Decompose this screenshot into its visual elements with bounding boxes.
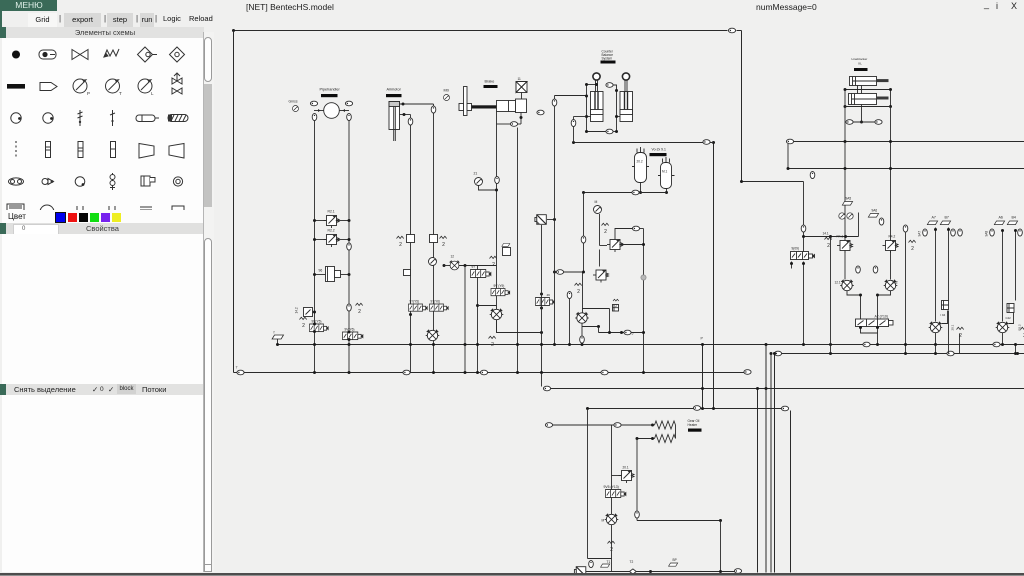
flow valve 9V8a on x433: [426, 330, 440, 341]
svg-text:14.2: 14.2: [295, 307, 299, 313]
label bar Airmotor: [386, 94, 402, 97]
svg-text:P: P: [701, 337, 704, 341]
wire vertical x713: [713, 143, 715, 409]
check diamond on bottom rail: [630, 569, 637, 574]
wire x554 top branch to crown rail: [555, 95, 587, 97]
wire C2 left leg x496: [496, 112, 498, 333]
filter F2 side box: [335, 271, 341, 278]
port on x636: [635, 511, 640, 518]
svg-text:A6: A6: [999, 216, 1003, 220]
wire leg x830: [830, 237, 832, 354]
wire x598 drop: [598, 327, 600, 333]
cylinder C2 (Brake) body: [497, 101, 516, 112]
svg-text:49: 49: [547, 293, 551, 297]
wire crown left rail mid stub: [587, 116, 591, 118]
svg-text:A2 (Y10): A2 (Y10): [875, 315, 888, 319]
junction at 741,181: [740, 180, 743, 183]
svg-text:20.1: 20.1: [623, 466, 629, 470]
svg-text:P: P: [87, 91, 90, 96]
cylinder C4 eye: [622, 73, 629, 80]
port on y332: [624, 330, 631, 335]
svg-text:11: 11: [518, 77, 522, 81]
filter box B1: [516, 82, 527, 93]
wire regulator out y244 to x643: [620, 244, 644, 246]
glyph box small on x410: [404, 270, 411, 276]
port below 9V8: [580, 336, 585, 343]
wire right rail bottom stub: [614, 131, 617, 133]
wire leg x477 below valve: [477, 278, 479, 373]
icon: bowtie valve: [72, 50, 88, 60]
label bar Brake: [484, 85, 498, 88]
port cap y424 left: [545, 423, 552, 428]
svg-text:R4.2: R4.2: [889, 235, 896, 239]
svg-text:Vo-2x 9.1: Vo-2x 9.1: [652, 148, 666, 152]
wire drop x787 from y141 port: [787, 144, 789, 169]
wire leg x517: [517, 128, 519, 373]
cylinder C4 rod: [625, 80, 627, 92]
wire R2.1 right stub: [337, 220, 350, 222]
cylinder C1 (Airmotor) body: [389, 102, 400, 130]
port P0 on top edge: [728, 28, 735, 33]
cylinder C6 body: [849, 94, 877, 105]
icon: tall rect A: [46, 142, 51, 158]
port 9A6: [879, 218, 884, 225]
port on R4.2 drop: [873, 266, 878, 273]
svg-text:T: T: [119, 91, 122, 96]
port cap rail y141: [786, 139, 793, 144]
svg-text:9?(Y6): 9?(Y6): [431, 300, 441, 304]
wire link to x496 top: [518, 123, 522, 125]
junction leg L on rail y344: [313, 343, 316, 346]
svg-text:R2.2: R2.2: [328, 229, 335, 233]
icon row6 partial b: [40, 205, 54, 219]
wire left feed to oval x573: [574, 116, 587, 118]
svg-text:9V5 (Y13): 9V5 (Y13): [604, 485, 619, 489]
flow valve on x496: [490, 309, 504, 320]
cylinder C1 rod: [394, 107, 396, 142]
cylinder C4 body: [620, 92, 633, 122]
svg-text:20.1: 20.1: [951, 324, 955, 330]
icon: pointer flag: [40, 83, 57, 91]
port on y424: [614, 423, 621, 428]
wire filter right stub: [341, 274, 350, 276]
meter box IM: [942, 301, 949, 310]
junction x476 rail y344: [476, 343, 479, 346]
port on branch y142: [703, 140, 710, 145]
port right of U1: [345, 101, 352, 106]
port on rail y344 right: [863, 342, 870, 347]
junction x433 rail y344: [432, 343, 435, 346]
wire x496 corner to x541: [497, 320, 542, 333]
wire leg x636 heater2: [636, 439, 638, 521]
valve 9A2 (Y6b): [430, 304, 449, 311]
wire x803 lower segment: [803, 262, 805, 345]
wire jog y353: [935, 345, 937, 354]
wire long vertical x643: [643, 229, 645, 373]
svg-text:M.1: M.1: [662, 170, 668, 174]
flow valve 20.1: [929, 322, 943, 333]
wire crown left rail bottom branch: [587, 131, 606, 133]
svg-text:T1: T1: [607, 560, 611, 564]
wire center chain x599: [599, 214, 601, 246]
icon: pneumatic source: [39, 50, 56, 59]
svg-text:I 94: I 94: [941, 313, 946, 317]
svg-text:System: System: [602, 57, 613, 61]
wire x496 top stub to port: [497, 123, 511, 125]
port cap x905: [903, 225, 908, 232]
port on branch y271: [556, 270, 563, 275]
port cap right of rail y408: [781, 406, 788, 411]
icon: tall rect C: [111, 142, 116, 158]
port right of C2: [537, 110, 544, 115]
cylinder C2 head block: [516, 99, 527, 113]
spring glyph right of port: [356, 303, 363, 315]
svg-text:12.1: 12.1: [835, 281, 841, 285]
icon: circle nub B: [43, 113, 53, 123]
wire x573 drop: [573, 117, 575, 143]
wire R2.1 left stub: [315, 220, 327, 222]
junction leg L on rail y372: [313, 371, 316, 374]
brake plate (disc): [464, 87, 468, 116]
wire 9V8 down to rail: [581, 324, 583, 345]
bottom white area: [2, 395, 203, 572]
wire crown left rail: [586, 85, 588, 132]
wire C2 bottom arrow stub: [520, 113, 522, 125]
wire stub into valve 9V7: [477, 266, 479, 270]
wire spring drop x959: [959, 334, 961, 354]
wire chain between regs: [599, 250, 601, 267]
gauge pair 9A5 b: [847, 213, 853, 219]
wire V1 stub down: [640, 183, 642, 193]
port on branch y192: [632, 190, 639, 195]
glyph 14.2 spring right: [909, 240, 916, 252]
icon: gauge T: [106, 79, 123, 96]
junction x476 y372: [476, 371, 479, 374]
flow valve 20.2: [996, 322, 1010, 333]
wire lineblocker bottom link: [845, 106, 891, 108]
wire frame bottom edge (main return rail): [234, 372, 750, 374]
icon: relief valve: [172, 73, 182, 94]
valve 14.2 (2-way): [304, 308, 313, 317]
icon: trapezoid right: [139, 144, 154, 159]
spring glyph left of x410: [397, 236, 404, 248]
icon row6 partial f: [172, 206, 184, 214]
junction y142 start: [572, 141, 575, 144]
spring glyph right of x433: [440, 236, 447, 248]
wire coil join x677: [675, 425, 677, 439]
junction dots y344/y353 right: [829, 343, 832, 346]
wire valve12 left dot: [443, 264, 446, 267]
svg-text:f: f: [274, 331, 275, 335]
svg-text:R2.1: R2.1: [328, 210, 335, 214]
icon: gauge L: [138, 79, 154, 96]
gauge 21: [475, 178, 483, 186]
wire y558 link: [588, 558, 612, 560]
wire frame top edge: [234, 30, 728, 32]
svg-text:12.2: 12.2: [892, 281, 898, 285]
valve 9V1 (Y5): [310, 324, 329, 332]
icon: circled C: [173, 177, 182, 186]
junction dots on rails: [756, 387, 759, 390]
flag A6: [994, 221, 1004, 225]
wire frame left edge: [233, 31, 235, 373]
wire regulator top branch to port: [615, 229, 633, 240]
svg-text:XL: XL: [858, 62, 862, 66]
regulator R2.1: [324, 216, 340, 229]
wire x587 drop: [587, 409, 589, 559]
svg-text:B4: B4: [1012, 216, 1016, 220]
meter box IM2: [1007, 304, 1014, 313]
brake pad right: [467, 104, 472, 111]
junction leg R on rail y344: [348, 343, 351, 346]
wire long vertical x770: [770, 354, 772, 573]
bottom bar: [6, 384, 204, 395]
wire top edge right stub: [737, 30, 742, 32]
wire heater2 feed y438: [637, 438, 655, 440]
section header: [6, 27, 204, 38]
wire A6 leg a x1002: [1002, 231, 1004, 322]
valve 9V6 (Y11) 4-way left: [791, 252, 815, 260]
port vertical leg R top: [347, 113, 352, 120]
flow valve 12.2: [884, 280, 898, 291]
flow valve mini 12: [449, 261, 461, 270]
junction x587 corner y408: [586, 407, 589, 410]
wire A7 leg b x948: [942, 228, 949, 354]
spring glyph on x611: [608, 541, 615, 553]
wire stub below C6: [861, 105, 863, 123]
cylinder C6 rod: [877, 97, 889, 100]
wire R2.2 left stub: [315, 239, 327, 241]
icon: double oval link: [9, 178, 24, 185]
accumulator V2 top ticks: [663, 157, 670, 163]
cylinder C3 rod: [596, 80, 598, 92]
wire reg stub: [612, 475, 622, 477]
flag B4: [1007, 221, 1017, 225]
svg-text:9A5: 9A5: [846, 197, 852, 201]
label bar Lineblocker: [854, 68, 868, 71]
wire jog x1015: [1015, 345, 1017, 354]
accumulator V2 side ticks: [658, 175, 675, 177]
wire crown right rail: [616, 91, 618, 132]
wire gauge stub: [479, 186, 497, 191]
wire rail y141: [794, 141, 1024, 143]
svg-text:12: 12: [451, 255, 455, 259]
bubble node on x643: [641, 275, 646, 280]
junction x410 rail y344: [409, 343, 412, 346]
flag A7: [927, 221, 937, 225]
wire 9V8 side stub y326: [582, 326, 599, 328]
wire leg x554: [554, 96, 556, 345]
port on x410: [408, 118, 413, 125]
svg-text:9(09): 9(09): [792, 247, 799, 251]
node top-left corner: [232, 29, 235, 32]
svg-text:Mtr: Mtr: [444, 89, 450, 93]
port on bottom rail mid3: [601, 370, 608, 375]
wire leg x433: [433, 104, 435, 373]
properties body: [2, 234, 203, 384]
glyph 14.1 spring: [825, 237, 832, 249]
wire lineblocker right rail down: [890, 107, 892, 241]
icon: dotted stem: [15, 141, 17, 157]
wire U1 right stub with arrow: [340, 110, 350, 112]
wire A7 leg a x935: [935, 228, 937, 322]
wire heater feed y424: [553, 424, 655, 426]
regulator R2.2: [324, 235, 340, 248]
wire U1 left stub with arrow: [314, 110, 324, 112]
spring glyph left of x583: [575, 283, 582, 295]
icon: trapezoid left: [169, 144, 184, 159]
wire main supply rail y344: [279, 344, 1024, 346]
wire box around C6: [845, 90, 891, 107]
port between rails top: [606, 83, 613, 88]
valve box on x433: [430, 235, 438, 243]
icon: diamond sensor B: [170, 47, 185, 62]
flag B7: [940, 221, 950, 225]
wire R4.2 drop: [890, 251, 892, 280]
label bar Pipehandler: [321, 94, 338, 97]
wire long vertical x790: [790, 411, 792, 573]
port below lineblocker R: [875, 120, 882, 125]
spring glyph at corner: [489, 336, 496, 348]
wire R4.1 drop: [844, 251, 846, 280]
toolbar: [28, 13, 57, 27]
port vertical on x496: [495, 176, 500, 183]
wire long vertical x765: [765, 345, 767, 573]
valve A2 (Y10) wide: [856, 319, 894, 327]
svg-text:Grnss: Grnss: [289, 100, 298, 104]
svg-text:M: M: [595, 200, 598, 204]
icon row6 partial d: [109, 206, 115, 214]
diamond check box D1: [535, 215, 546, 225]
wire rail y353: [782, 353, 1024, 355]
flag on bottom rail: [601, 564, 610, 567]
wire x609 drop: [609, 309, 611, 333]
svg-text:BP: BP: [673, 558, 677, 562]
spring glyph right: [957, 327, 964, 339]
svg-text:L: L: [151, 91, 154, 96]
svg-text:Pipehandler: Pipehandler: [320, 88, 341, 92]
icon: spring arrow: [104, 49, 119, 57]
pilot box B: [613, 305, 619, 312]
port cap of rail y388: [543, 386, 550, 391]
port cap of rail y353: [774, 351, 781, 356]
wire chain to regulator: [600, 245, 608, 247]
regulator R4.2: [883, 241, 899, 254]
icon row6 partial a: [7, 204, 24, 214]
colors row: [2, 210, 203, 223]
port on bottom rail mid1: [403, 370, 410, 375]
wire y520: [637, 520, 721, 522]
junction y353 far right: [1016, 352, 1019, 355]
wire oval to right rail jog: [613, 85, 617, 91]
wire leg x314: [314, 121, 316, 373]
port on x803: [801, 225, 806, 232]
right scroll column: [203, 32, 214, 572]
svg-text:A7: A7: [932, 216, 936, 220]
flow valve on x611: [605, 514, 619, 525]
svg-text:20.2: 20.2: [637, 160, 643, 164]
accumulator V1 vessel: [635, 153, 647, 183]
port on rail y408: [693, 406, 700, 411]
wire port link y121: [850, 121, 879, 123]
wire vertical x583 upper: [582, 193, 584, 314]
valve 9V2 (Y6): [343, 332, 363, 340]
junction x433 y372: [432, 371, 435, 374]
cylinder C3 piston: [591, 110, 604, 115]
port on bottom rail right end: [744, 370, 751, 375]
port below lineblocker L: [846, 120, 853, 125]
wire 12.1 to valve A2: [847, 291, 861, 319]
wire C1 side port stub: [400, 114, 411, 116]
icon: pump small: [42, 179, 54, 185]
port hanging below y168: [810, 171, 815, 178]
port cap x569: [567, 291, 572, 298]
stub x858 up: [858, 213, 860, 237]
valve 9V (Y9): [491, 289, 510, 296]
wire 9V8 pilot y308: [582, 308, 610, 310]
wire leg x611 heater chain: [611, 425, 613, 572]
port on rail y353: [947, 351, 954, 356]
junction x541 y332: [540, 331, 543, 334]
junction x517 rail y372: [516, 371, 519, 374]
wire D1 to x554: [547, 219, 555, 221]
flag 9A5: [842, 202, 852, 206]
heater coil R2: [655, 435, 676, 443]
port on leg R x348: [347, 304, 352, 311]
junction x496 rail? none; x517 rail y344: [516, 343, 519, 346]
flow valve 12.1: [840, 280, 854, 291]
wire rail y408: [588, 408, 782, 410]
wire x541 to port y388: [541, 373, 543, 387]
wire C1 top port to x433: [400, 103, 434, 105]
brake pad left: [459, 104, 464, 111]
port A6 right: [1018, 229, 1023, 236]
svg-text:T2: T2: [630, 560, 634, 564]
flow valve 9V8: [575, 313, 589, 324]
wire vertical from top edge to node 181: [741, 31, 743, 182]
port cap of rail y571: [734, 569, 741, 574]
wire right rail stub to C4: [617, 116, 621, 118]
svg-text:9A8: 9A8: [985, 231, 989, 237]
cylinder C4 piston: [620, 110, 633, 115]
wire leg x541: [541, 225, 543, 373]
flag BP: [669, 563, 678, 566]
wire valve down to rail: [935, 333, 937, 345]
wire valve A6 down to rail: [1002, 333, 1004, 345]
svg-text:Lineblocker: Lineblocker: [852, 57, 868, 61]
gauge M center: [594, 206, 602, 214]
icon: hatched capsule: [168, 115, 188, 122]
cylinder C5 body: [850, 77, 877, 86]
wire branch y332: [599, 332, 644, 334]
cylinder C5 rod: [877, 79, 889, 82]
icon: circle nub A: [11, 113, 21, 123]
port on bottom branch: [606, 129, 613, 134]
wire stubs cyl1 to box: [858, 86, 862, 94]
wire filter left stub: [315, 274, 326, 276]
wire port to x643: [640, 228, 644, 230]
port on rail y344 far right: [993, 342, 1000, 347]
wire boxB1 to cylinder: [521, 93, 523, 100]
port left of U1: [310, 101, 317, 106]
label bar Vo-2x: [650, 153, 667, 156]
wire leg x905: [905, 233, 907, 354]
svg-text:M: M: [602, 519, 605, 523]
svg-text:7: 7: [236, 366, 238, 370]
icon: box flag: [141, 176, 155, 186]
properties header: [6, 223, 204, 234]
junction x884 y168: [889, 167, 892, 170]
